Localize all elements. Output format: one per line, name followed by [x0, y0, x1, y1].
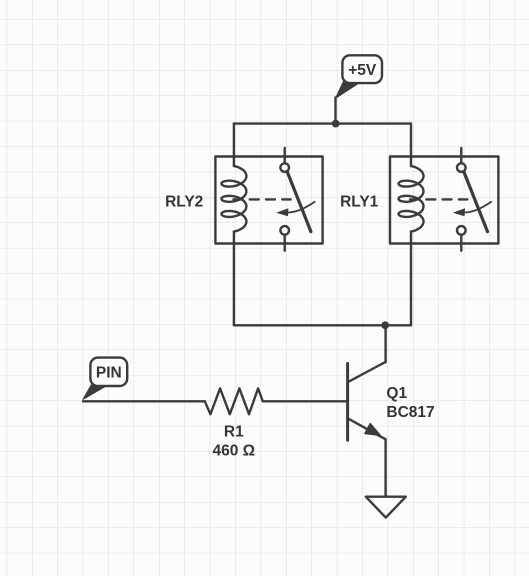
svg-text:RLY1: RLY1: [340, 194, 379, 211]
relay RLY1 actuation dashed link: [410, 198, 467, 200]
transistor Q1 base bar: [346, 364, 349, 441]
relay RLY2 switch top pin stub: [284, 148, 286, 163]
wire RLY1 coil bottom to bottom bus: [410, 232, 412, 326]
relay RLY1 actuation arrow: [465, 202, 491, 213]
relay RLY2 switch bottom terminal: [280, 226, 289, 235]
relay RLY2 switch top terminal: [280, 163, 289, 172]
relay RLY1 switch top pin stub: [460, 148, 462, 163]
signal label PIN callout: [83, 358, 127, 400]
relay RLY2 coil: [221, 166, 246, 232]
relay RLY1 switch bottom terminal: [457, 226, 466, 235]
relay RLY1 coil: [399, 166, 424, 232]
relay RLY2 actuation arrow: [289, 202, 315, 213]
wire PIN to resistor R1: [83, 400, 205, 402]
svg-text:BC817: BC817: [386, 404, 434, 421]
wire RLY2 coil bottom to bottom bus: [233, 232, 235, 326]
relay RLY1 switch bottom pin stub: [460, 235, 462, 251]
transistor Q1 emitter lead: [349, 419, 385, 439]
wire top bus to RLY1 coil: [410, 124, 412, 166]
node junction +5V on top bus: [332, 120, 340, 128]
wire Q1 emitter to ground: [384, 439, 386, 496]
svg-text:RLY2: RLY2: [165, 194, 203, 211]
relay RLY2 actuation dashed link: [234, 198, 291, 200]
node junction collector on bottom bus: [381, 321, 389, 329]
power label +5V callout: [335, 55, 382, 98]
relay RLY2 switch bottom pin stub: [284, 235, 286, 251]
wire top bus to RLY2 coil: [233, 124, 235, 166]
resistor R1 zigzag: [205, 388, 263, 414]
transistor Q1 emitter arrow: [365, 424, 380, 436]
relay RLY2 switch arm: [287, 172, 311, 232]
svg-text:PIN: PIN: [96, 364, 122, 381]
svg-text:+5V: +5V: [348, 62, 377, 79]
wire +5V tap to top bus: [334, 98, 336, 124]
relay RLY2 body box: [215, 157, 322, 244]
svg-text:Q1: Q1: [386, 385, 407, 402]
transistor Q1 collector lead: [349, 362, 385, 381]
wire top bus: [234, 122, 411, 124]
wire resistor R1 to Q1 base: [263, 400, 346, 402]
wire bottom bus: [234, 324, 411, 326]
relay RLY1 switch top terminal: [457, 163, 466, 172]
wire bottom bus to Q1 collector: [384, 325, 386, 362]
relay RLY1 switch arm: [464, 172, 488, 232]
svg-text:R1: R1: [224, 423, 244, 440]
relay RLY1 body box: [390, 157, 498, 244]
svg-text:460 Ω: 460 Ω: [212, 443, 255, 460]
ground symbol: [366, 497, 406, 518]
